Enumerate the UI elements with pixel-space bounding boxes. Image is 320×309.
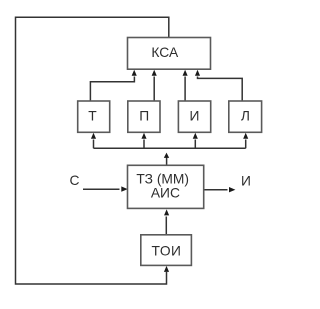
arrowhead TOI to TZ (164, 209, 169, 215)
arrowhead P to KCA (152, 70, 157, 76)
svg-text:ТОИ: ТОИ (152, 243, 182, 258)
box I (178, 101, 210, 132)
arrowhead C into TZ (121, 186, 127, 191)
wire bus stub to I (194, 140, 196, 149)
wire bus stub to T (93, 140, 95, 149)
wire L to KCA (198, 77, 243, 102)
svg-text:КСА: КСА (151, 45, 179, 60)
box KCA (128, 38, 211, 70)
svg-text:АИС: АИС (151, 185, 180, 200)
wire bus stub to L (245, 140, 247, 149)
wire P to KCA (153, 77, 155, 102)
arrowhead bus to P (141, 133, 146, 139)
arrowhead bus to I (193, 133, 198, 139)
wire bus horizontal (94, 147, 246, 149)
box T (78, 101, 110, 132)
arrowhead into TOI bottom (164, 266, 169, 272)
box P (128, 101, 160, 132)
arrowhead TZ out to I (229, 187, 235, 192)
svg-text:П: П (139, 108, 149, 123)
arrowhead T to KCA (132, 70, 137, 76)
svg-text:И: И (241, 174, 251, 189)
arrowhead bus to L (243, 133, 248, 139)
wire C input to TZ (83, 188, 120, 190)
arrowhead I to KCA (183, 70, 188, 76)
wire T to KCA (90, 77, 134, 102)
svg-text:И: И (190, 108, 200, 123)
arrowhead TZ to bus (164, 153, 169, 158)
box L (229, 101, 262, 132)
box TOI (141, 235, 192, 266)
wire bus stub to P (143, 140, 145, 149)
arrowhead bus to T (91, 133, 96, 139)
svg-text:Л: Л (241, 108, 250, 123)
svg-text:Т: Т (88, 108, 97, 123)
wire TOI to TZ (165, 217, 167, 235)
wire TZ to bus (166, 156, 168, 165)
wire feedback loop KCA top to TOI bottom (16, 17, 169, 284)
svg-text:С: С (70, 173, 80, 188)
wire I to KCA (184, 77, 186, 102)
svg-text:ТЗ (ММ): ТЗ (ММ) (136, 171, 189, 186)
box TZ(MM)AIS (128, 165, 204, 208)
wire TZ output to I label (204, 189, 228, 191)
arrowhead L to KCA (195, 70, 200, 76)
